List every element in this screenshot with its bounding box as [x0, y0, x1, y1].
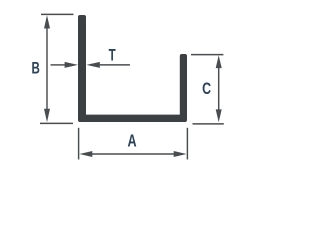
dimension A left arrow [79, 151, 92, 157]
dimension B top arrow [44, 15, 50, 28]
dimension A right arrow [174, 151, 187, 157]
dimension T right arrow [86, 62, 99, 68]
extension line B top [41, 13, 74, 15]
extension line C bottom [193, 123, 224, 125]
dimension C vertical line [218, 65, 220, 112]
svg-text:T: T [109, 47, 116, 66]
extension line B bottom [40, 122, 73, 124]
svg-text:C: C [202, 80, 211, 98]
extension tick A left [78, 128, 80, 160]
dimension A horizontal line [90, 153, 176, 155]
dimension T left line [51, 64, 67, 66]
dimension C top arrow [216, 55, 222, 68]
extension tick A right [186, 128, 188, 160]
U-channel profile [78, 15, 187, 122]
svg-text:A: A [128, 132, 137, 152]
dimension C bottom arrow [216, 109, 222, 122]
dimension T right line [98, 64, 130, 66]
dimension T left arrow [65, 62, 78, 68]
extension line C top [191, 54, 223, 56]
dimension B bottom arrow [44, 109, 50, 122]
svg-text:B: B [32, 60, 40, 79]
dimension B vertical line [46, 25, 48, 113]
